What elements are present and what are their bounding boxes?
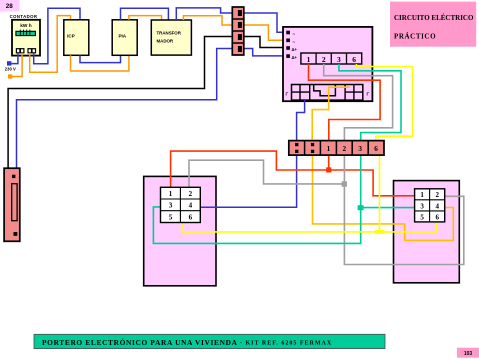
wire strip X1 cell1 to PSU pin1 blue [244, 13, 285, 32]
svg-text:1: 1 [420, 191, 424, 199]
svg-text:4: 4 [435, 202, 439, 210]
transformer [151, 20, 191, 55]
wire PIA to transformer blue [121, 8, 169, 20]
svg-text:3: 3 [337, 55, 341, 64]
svg-text:kW h: kW h [20, 23, 32, 29]
svg-text:5: 5 [169, 213, 173, 221]
wire transformer to strip X1 cell1 blue [176, 8, 232, 20]
svg-text:5: 5 [420, 213, 424, 221]
svg-text:2: 2 [189, 190, 193, 198]
wire ICP to PIA orange [71, 55, 129, 71]
wire gray bus strip X2 to both units [344, 155, 463, 264]
PSU pin 2 (~) [286, 39, 295, 45]
wire PSU internal blue to strip X2 [297, 100, 305, 141]
node teal junction [358, 205, 364, 210]
wire PIA to transformer orange [129, 16, 162, 20]
wire strip X2 to telephone 4 blue [200, 155, 296, 207]
svg-text:6: 6 [189, 213, 193, 221]
wire strip X2 to street panel 4 gold [313, 155, 454, 240]
power supply unit (alimentador) [283, 27, 372, 101]
PSU pin 1 (~) [286, 31, 295, 37]
svg-text:CIRCUITO ELÉCTRICO: CIRCUITO ELÉCTRICO [394, 14, 474, 22]
wire contador to ICP orange [30, 16, 71, 73]
svg-text:3: 3 [169, 202, 173, 210]
svg-text:ICP: ICP [67, 33, 75, 38]
telephone unit [144, 176, 216, 285]
svg-text:3: 3 [420, 202, 424, 210]
telephone terminal grid [161, 187, 201, 222]
PSU internal rectifier strip [292, 85, 363, 101]
svg-text:~: ~ [293, 39, 296, 44]
terminal strip X2 (6-way) [289, 141, 384, 156]
node red junction [326, 167, 331, 172]
page label 28 [0, 0, 20, 12]
svg-text:PRÁCTICO: PRÁCTICO [394, 33, 436, 41]
svg-text:TRANSFOR: TRANSFOR [157, 31, 182, 36]
svg-text:2: 2 [322, 55, 326, 64]
wire strip X1 cell3 to PSU pin3 black [244, 37, 285, 48]
wire supply orange to contador [12, 53, 22, 77]
door opener (abrepuertas) [4, 168, 20, 241]
svg-text:PIA: PIA [118, 33, 126, 38]
wire PSU 3 to strip X2 teal [339, 64, 401, 141]
breaker ICP [64, 20, 89, 56]
breaker PIA [112, 20, 137, 56]
street panel unit [394, 181, 460, 283]
wire supply blue to contador [11, 53, 18, 64]
svg-text:28: 28 [6, 3, 14, 10]
PSU output terminals 1 2 3 6 [301, 53, 362, 64]
wire transformer to strip X1 cell2 orange [183, 16, 232, 25]
svg-text:- KIT REF. 6205 FERMAX: - KIT REF. 6205 FERMAX [240, 340, 332, 346]
svg-text:2: 2 [343, 145, 347, 153]
svg-text:1: 1 [327, 145, 331, 153]
svg-text:6: 6 [435, 213, 439, 221]
street panel terminal grid [415, 189, 445, 222]
node gray junction [342, 181, 347, 186]
svg-text:~: ~ [293, 32, 296, 37]
wire teal bus strip X2 to both units [153, 155, 360, 243]
svg-text:1: 1 [169, 190, 173, 198]
svg-text:6: 6 [374, 145, 378, 153]
title box [390, 2, 476, 47]
wire yellow bus strip X2 to both units [379, 155, 381, 232]
wire PSU internal gold to strip X2 [312, 87, 349, 140]
wire strip X1 cell2 to PSU pin2 orange [244, 25, 285, 40]
svg-text:4: 4 [189, 202, 193, 210]
svg-text:Γ: Γ [286, 92, 289, 97]
wire strip X1 cell3 to door opener black [8, 37, 232, 169]
svg-text:PORTERO ELECTRÓNICO PARA UNA: PORTERO ELECTRÓNICO PARA UNA VIVIENDA [42, 337, 238, 347]
supply terminal 230V blue [7, 61, 11, 65]
wire ICP to PIA blue [80, 55, 121, 62]
page number 103 [457, 348, 479, 358]
PSU pin 4 (-) [286, 54, 297, 60]
svg-text:1: 1 [307, 55, 311, 64]
svg-text:2: 2 [435, 191, 439, 199]
svg-text:230 V: 230 V [5, 67, 16, 72]
supply terminal 230V orange [8, 74, 12, 78]
wire strip X1 cell4 to PSU pin4 blue [244, 49, 285, 56]
wire contador to ICP blue [34, 8, 80, 64]
svg-text:CONTADOR: CONTADOR [10, 14, 38, 19]
wire PSU 1 to strip X2 red [309, 64, 381, 141]
svg-text:Γ: Γ [367, 92, 370, 97]
banner title [34, 334, 385, 348]
terminal strip X1 (4-way) [232, 7, 244, 55]
svg-text:Δ+: Δ+ [292, 47, 298, 52]
svg-text:6: 6 [352, 55, 356, 64]
svg-text:MADOR: MADOR [157, 39, 174, 44]
wire red bus strip X2 to both units [328, 155, 330, 170]
wire strip X1 cell4 to door opener blue [17, 49, 233, 169]
svg-text:Δ+: Δ+ [292, 55, 298, 60]
svg-text:3: 3 [358, 145, 362, 153]
meter CONTADOR [10, 14, 40, 56]
node yellow junction [375, 230, 385, 234]
PSU pin 3 (+) [286, 46, 297, 52]
wire PSU 2 to strip X2 gray [324, 64, 393, 141]
svg-text:103: 103 [464, 351, 473, 357]
wire PSU 6 to strip X2 yellow [356, 64, 412, 141]
